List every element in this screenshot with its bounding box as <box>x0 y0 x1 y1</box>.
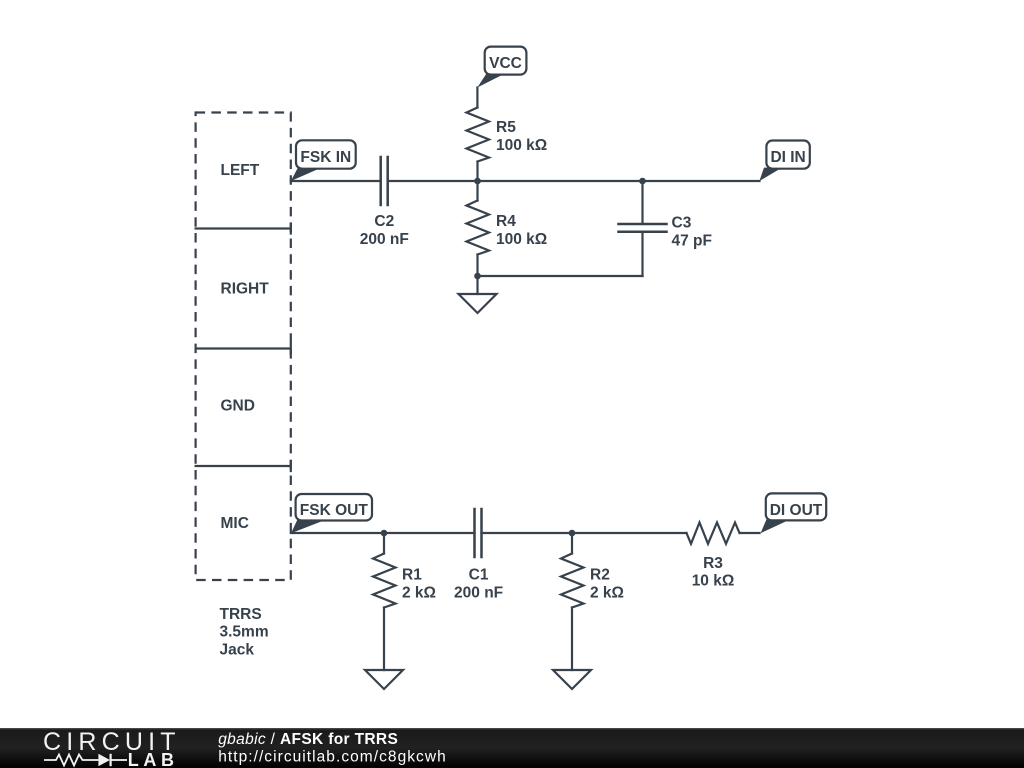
wire VCC lead <box>476 88 478 108</box>
svg-text:http://circuitlab.com/c8gkcwh: http://circuitlab.com/c8gkcwh <box>218 749 447 766</box>
node: R5/R4 junction <box>474 178 481 185</box>
wire bottom net: MIC pin to C1 left plate <box>291 532 475 534</box>
svg-text:TRRS: TRRS <box>220 606 262 623</box>
node: R4/C3 bottom junction <box>474 273 481 280</box>
svg-text:10 kΩ: 10 kΩ <box>692 572 735 589</box>
svg-text:GND: GND <box>221 398 255 415</box>
jack pin label MIC <box>221 515 249 532</box>
label R5 value <box>496 119 547 154</box>
svg-text:R3: R3 <box>703 555 723 572</box>
footer title gbabic / AFSK for TRRS <box>218 731 398 748</box>
flag VCC <box>477 47 526 88</box>
resistor R5 <box>467 108 490 162</box>
resistor R4 <box>467 201 490 255</box>
svg-text:C2: C2 <box>374 213 394 230</box>
wire R4 bottom lead to node <box>476 255 478 277</box>
resistor R2 <box>561 554 584 608</box>
node: R1 junction <box>381 530 388 537</box>
svg-text:3.5mm: 3.5mm <box>220 624 269 641</box>
footer bar <box>0 728 1024 768</box>
wire R3 to DI OUT <box>741 532 760 534</box>
svg-text:C3: C3 <box>672 214 692 231</box>
logo CIRCUIT text <box>43 728 181 756</box>
svg-text:VCC: VCC <box>489 55 522 72</box>
wire R1 top lead <box>383 533 385 554</box>
svg-text:MIC: MIC <box>221 515 249 532</box>
svg-text:R5: R5 <box>496 119 516 136</box>
label R4 value <box>496 213 547 248</box>
wire R2 to ground G3 <box>571 608 573 671</box>
jack separator GND/MIC <box>196 461 291 471</box>
svg-text:gbabic / AFSK for TRRS: gbabic / AFSK for TRRS <box>218 731 398 748</box>
svg-text:R4: R4 <box>496 213 516 230</box>
svg-text:2 kΩ: 2 kΩ <box>590 585 624 602</box>
logo resistor-diode glyph <box>44 754 127 766</box>
flag DI OUT <box>761 493 827 533</box>
jack pin label LEFT <box>221 162 260 179</box>
wire C3 top lead <box>641 181 643 224</box>
flag FSK OUT <box>291 494 372 533</box>
wire C3 bottom lead <box>641 232 643 276</box>
svg-text:200 nF: 200 nF <box>360 231 409 248</box>
wire R1 to ground G2 <box>383 608 385 671</box>
jack separator LEFT/RIGHT <box>196 224 291 234</box>
svg-text:Jack: Jack <box>220 641 255 658</box>
label R3 value <box>692 555 735 590</box>
svg-text:200 nF: 200 nF <box>454 585 503 602</box>
jack pin label GND <box>221 398 255 415</box>
ground G1 <box>459 294 497 313</box>
resistor R1 <box>373 554 396 608</box>
flag DI IN <box>759 141 809 182</box>
jack separator RIGHT/GND <box>196 344 291 354</box>
node: R2 junction <box>569 530 576 537</box>
svg-text:47 pF: 47 pF <box>672 232 712 249</box>
svg-text:LAB: LAB <box>128 750 179 768</box>
label C1 value <box>454 567 503 602</box>
wire R4 top lead <box>476 181 478 201</box>
label C3 value <box>672 214 712 249</box>
svg-text:RIGHT: RIGHT <box>221 280 270 297</box>
wire top net: LEFT pin to C2 left plate <box>291 180 381 182</box>
wire R5 bottom lead <box>476 162 478 182</box>
label R1 value <box>402 567 436 602</box>
wire node to ground G1 <box>476 276 478 294</box>
label R2 value <box>590 567 624 602</box>
ground G2 <box>365 670 403 689</box>
svg-text:2 kΩ: 2 kΩ <box>402 585 436 602</box>
resistor R3 <box>687 523 740 544</box>
ground G3 <box>553 670 591 689</box>
svg-text:FSK IN: FSK IN <box>300 149 351 166</box>
wire bottom net: C1 right plate to R3 <box>482 532 687 534</box>
footer url <box>218 749 447 766</box>
capacitor C3 <box>619 224 667 232</box>
capacitor C1 <box>475 509 482 557</box>
svg-text:DI IN: DI IN <box>770 149 805 166</box>
svg-text:C1: C1 <box>469 567 489 584</box>
label C2 value <box>360 213 409 248</box>
capacitor C2 <box>381 157 388 205</box>
svg-text:R2: R2 <box>590 567 610 584</box>
wire R2 top lead <box>571 533 573 554</box>
node: C3 top junction <box>639 178 646 185</box>
flag FSK IN <box>291 140 356 181</box>
label TRRS jack name <box>220 606 269 658</box>
svg-text:DI OUT: DI OUT <box>770 502 823 519</box>
wire top net: C2 right plate to DI IN <box>388 180 760 182</box>
svg-text:R1: R1 <box>402 567 422 584</box>
wire C3 bottom to R4 bottom node <box>478 275 643 277</box>
svg-text:100 kΩ: 100 kΩ <box>496 137 547 154</box>
svg-text:FSK OUT: FSK OUT <box>300 502 369 519</box>
TRRS jack J1 body <box>196 113 291 581</box>
svg-text:100 kΩ: 100 kΩ <box>496 231 547 248</box>
logo LAB text <box>128 750 179 768</box>
svg-text:LEFT: LEFT <box>221 162 260 179</box>
jack pin label RIGHT <box>221 280 270 297</box>
